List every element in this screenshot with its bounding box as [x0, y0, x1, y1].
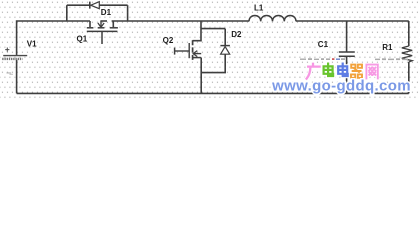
wire D1 branch left: [67, 4, 90, 6]
wire D1 branch right: [99, 4, 127, 6]
svg-text:Q2: Q2: [163, 36, 174, 45]
wire D1 left riser: [66, 5, 68, 21]
inductor L1: [249, 3, 296, 21]
char qi (orange): [351, 65, 362, 78]
wire L1 right to top-right corner: [296, 20, 409, 22]
char guang (pink): [307, 64, 320, 79]
wire R1 top lead (right corner): [408, 21, 410, 46]
wire R1 bottom lead: [408, 62, 410, 93]
diode D2: [220, 30, 242, 54]
watermark noise marks: [300, 58, 408, 60]
wire C1 bottom lead: [346, 57, 348, 94]
wire Q2 drain to D2 jog: [201, 28, 225, 30]
transistor Q1 (MOSFET, rotated, leads up): [77, 21, 118, 44]
diode D1: [90, 2, 112, 17]
wire Q1 source to Q2 drain junction to L1: [112, 20, 249, 22]
watermark Chinese characters line: [307, 64, 378, 79]
svg-text:R1: R1: [382, 43, 393, 52]
resistor R1: [382, 43, 412, 62]
char dian (blue): [338, 64, 348, 76]
svg-text:L1: L1: [254, 3, 264, 12]
wire battery bottom lead: [16, 60, 18, 94]
char wang (pink): [366, 65, 377, 79]
wire D2 bottom to Q2 source rail: [201, 54, 225, 73]
wire Q1 internal top tick: [100, 20, 107, 22]
battery V1: [2, 40, 37, 59]
svg-text:C1: C1: [318, 40, 329, 49]
stray gray mark: [7, 72, 13, 74]
wire C1 top lead: [346, 21, 348, 52]
wire Q2 source down to bottom rail: [200, 58, 202, 94]
wire D1 right riser: [127, 5, 129, 21]
wire battery top to Q1 drain (top-left rail): [17, 21, 90, 55]
wire D2 top riser: [224, 29, 226, 46]
svg-text:Q1: Q1: [77, 34, 88, 43]
transistor Q2 (MOSFET, vertical): [163, 36, 202, 60]
char dian (green): [324, 64, 334, 76]
svg-text:www.go-gddq.com: www.go-gddq.com: [271, 78, 411, 95]
svg-text:V1: V1: [27, 40, 37, 49]
svg-text:D1: D1: [101, 8, 112, 17]
wire bottom rail: [17, 92, 409, 94]
wire Q2 drain lead: [193, 21, 201, 41]
svg-text:D2: D2: [231, 30, 242, 39]
capacitor C1: [318, 40, 355, 56]
